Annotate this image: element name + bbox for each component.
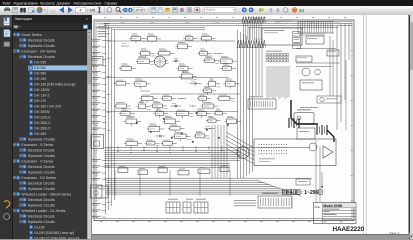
svg-text:Инструменты: Инструменты xyxy=(74,2,95,6)
svg-text:Page 4: Page 4 xyxy=(390,231,400,235)
svg-text:DH 030: DH 030 xyxy=(34,60,46,64)
svg-text:Wheeled Loader - DL Series: Wheeled Loader - DL Series xyxy=(21,209,65,213)
svg-text:DH 220LC: DH 220LC xyxy=(34,115,51,119)
svg-text:DH 130 [S/N 0483 and up]: DH 130 [S/N 0483 and up] xyxy=(34,82,75,86)
svg-text:×: × xyxy=(86,16,89,21)
svg-text:Dozer Series: Dozer Series xyxy=(21,33,41,37)
svg-text:Electrical Circuits: Electrical Circuits xyxy=(28,165,55,169)
svg-text:Hydraulic Circuits: Hydraulic Circuits xyxy=(28,187,55,191)
svg-text:DH 170: DH 170 xyxy=(34,99,46,103)
svg-text:Редактирование: Редактирование xyxy=(14,2,39,6)
svg-text:Excavator - S Series: Excavator - S Series xyxy=(21,143,53,147)
svg-text:Документ: Документ xyxy=(57,2,72,6)
svg-text:Окно: Окно xyxy=(94,2,102,6)
svg-text:DH 320LC: DH 320LC xyxy=(34,126,51,130)
svg-text:DH 050: DH 050 xyxy=(34,66,46,70)
svg-text:DH 130-2: DH 130-2 xyxy=(34,93,49,97)
svg-text:Найти: Найти xyxy=(206,8,215,12)
svg-text:54: 54 xyxy=(299,8,304,13)
svg-text:Model DH50: Model DH50 xyxy=(324,204,343,208)
svg-text:Hydraulic Circuits: Hydraulic Circuits xyxy=(28,137,55,141)
svg-text:DH 280LC: DH 280LC xyxy=(34,121,51,125)
svg-text:Закладки: Закладки xyxy=(15,16,32,21)
svg-text:DH 080: DH 080 xyxy=(34,71,46,75)
svg-text:Hydraulic Circuits: Hydraulic Circuits xyxy=(28,203,55,207)
svg-text:DH 130: DH 130 xyxy=(34,77,46,81)
svg-text:DH 200W: DH 200W xyxy=(34,110,50,114)
svg-text:Файл: Файл xyxy=(3,2,11,6)
svg-text:Hydraulic Circuits: Hydraulic Circuits xyxy=(28,154,55,158)
svg-text:DH 130W: DH 130W xyxy=(34,88,50,92)
svg-text:Electrical Circuits: Electrical Circuits xyxy=(28,198,55,202)
svg-text:Excavator - DH Series: Excavator - DH Series xyxy=(21,49,56,53)
svg-text:Electrical Circuits: Electrical Circuits xyxy=(28,181,55,185)
svg-text:Electrical Circuits: Electrical Circuits xyxy=(28,55,55,59)
svg-text:Просмотр: Просмотр xyxy=(40,2,55,6)
svg-text:/ 248: / 248 xyxy=(87,9,95,13)
svg-text:120%: 120% xyxy=(134,8,142,12)
svg-text:DL160: DL160 xyxy=(34,225,44,229)
svg-text:DL200 [S/N 5001 and up]: DL200 [S/N 5001 and up] xyxy=(34,231,74,235)
svg-text:DH 180 / DH 220: DH 180 / DH 220 xyxy=(34,104,61,108)
svg-text:Electrical Circuits: Electrical Circuits xyxy=(28,214,55,218)
svg-text:Electrical Circuits: Electrical Circuits xyxy=(28,38,55,42)
svg-text:Excavator - V Series: Excavator - V Series xyxy=(21,159,53,163)
svg-text:Hydraulic Circuits: Hydraulic Circuits xyxy=(28,170,55,174)
svg-text:DL200 TC [S/N 5001 and up]: DL200 TC [S/N 5001 and up] xyxy=(34,236,79,239)
svg-text:Справка: Справка xyxy=(105,2,118,6)
svg-text:Wheeled Loader - MEGA Series: Wheeled Loader - MEGA Series xyxy=(21,192,71,196)
svg-text:DH 450: DH 450 xyxy=(34,132,46,136)
svg-text:HAAE2220: HAAE2220 xyxy=(333,226,365,233)
svg-text:Note: Note xyxy=(315,205,321,209)
svg-text:Excavator - DX Series: Excavator - DX Series xyxy=(21,176,56,180)
svg-text:Hydraulic Circuits: Hydraulic Circuits xyxy=(28,220,55,224)
svg-text:Electrical Circuits: Electrical Circuits xyxy=(28,148,55,152)
svg-text:Hydraulic Circuits: Hydraulic Circuits xyxy=(28,44,55,48)
